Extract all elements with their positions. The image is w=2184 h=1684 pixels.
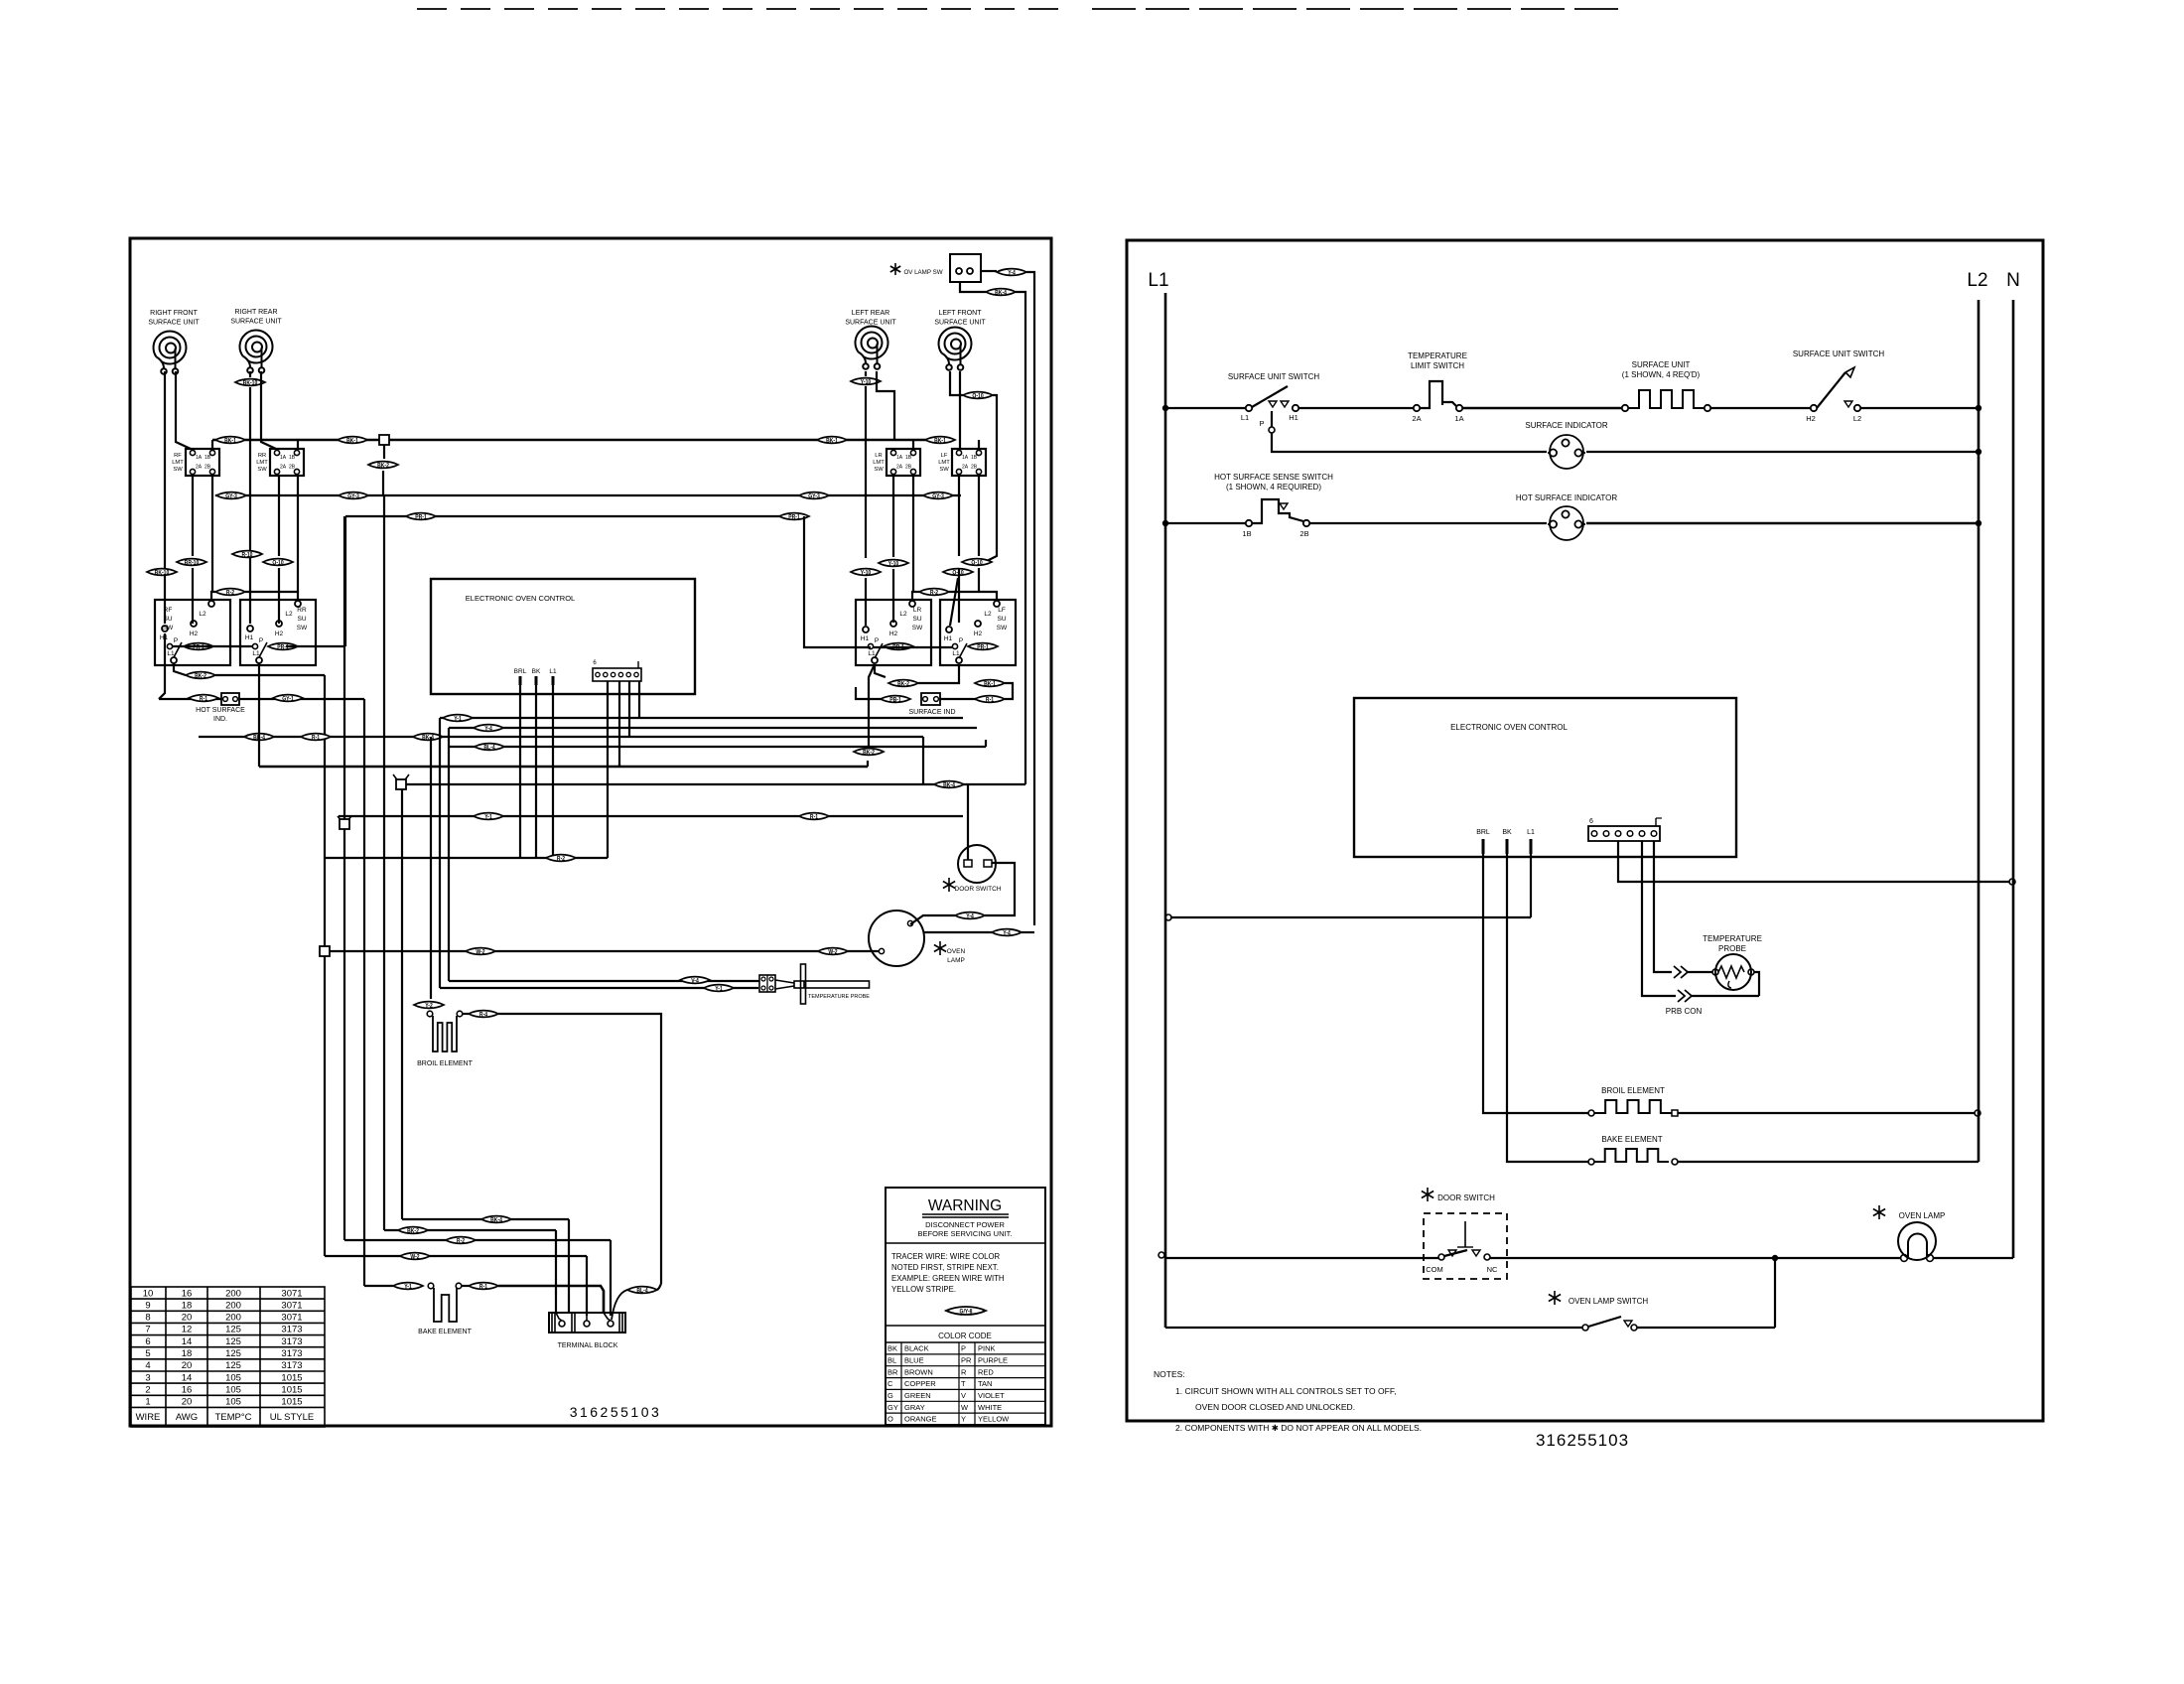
wire RR L1 drop to y772 (258, 663, 260, 767)
svg-text:BK-1: BK-1 (224, 438, 236, 445)
probe taper bottom (775, 986, 794, 989)
EOC strip pin right (1615, 831, 1621, 837)
LR SU SW L2 terminal (909, 601, 915, 607)
wire L1 rail (1164, 293, 1167, 1328)
wire hot surface ind left (159, 698, 221, 700)
svg-text:GY-1: GY-1 (282, 696, 294, 703)
connector G/Y-8 (946, 1307, 986, 1316)
svg-text:W-2: W-2 (828, 949, 837, 956)
limit switch LR LMT SW box (887, 449, 920, 476)
connector R-4 (469, 1011, 498, 1019)
svg-text:LMT: LMT (256, 460, 268, 466)
LR SU SW P terminal (868, 643, 873, 648)
svg-text:125: 125 (225, 1360, 241, 1371)
surface unit switch LR SU SW box (856, 600, 931, 665)
connector Y-2 (414, 1002, 444, 1010)
svg-text:H2: H2 (1806, 414, 1816, 423)
connector BK-1 (817, 437, 847, 445)
wire y1265 (325, 1255, 587, 1257)
oven lamp terminal upper (907, 920, 912, 925)
svg-text:L2: L2 (984, 611, 992, 618)
chevron (1678, 990, 1692, 1002)
svg-text:W-2: W-2 (476, 949, 484, 956)
svg-text:10: 10 (143, 1288, 154, 1299)
LF LMT SW terminal (976, 469, 981, 474)
svg-text:2A: 2A (1412, 414, 1421, 423)
svg-text:TEMPERATURE PROBE: TEMPERATURE PROBE (808, 994, 870, 1000)
surface unit switch LF SU SW box (940, 600, 1016, 665)
svg-text:H1: H1 (1289, 413, 1298, 422)
label tracer wire text (891, 1252, 1005, 1294)
svg-text:Y-1: Y-1 (404, 1284, 412, 1291)
label RIGHT FRONT SURFACE UNIT (148, 310, 200, 327)
svg-text:LMT: LMT (172, 460, 184, 466)
wire strip to probe lower (1642, 841, 1676, 996)
EOC strip pin right (1627, 831, 1633, 837)
svg-text:H1: H1 (861, 635, 870, 642)
wire main bus BK y443 (212, 439, 940, 442)
svg-text:R: R (961, 1367, 967, 1376)
svg-text:BK-1: BK-1 (984, 681, 996, 688)
svg-text:C: C (887, 1379, 893, 1388)
svg-text:3173: 3173 (281, 1336, 302, 1347)
RF LMT SW terminal (209, 450, 214, 455)
wire R-2 to RR L2 (245, 592, 298, 600)
bake element terminal left (428, 1283, 434, 1289)
wire x347 down (343, 516, 345, 820)
bake element terminal right (456, 1283, 462, 1289)
contact triangle (1269, 401, 1277, 407)
limit switch LF LMT SW box (952, 449, 986, 476)
connector Y-10 (879, 560, 908, 568)
svg-text:SURFACE UNIT: SURFACE UNIT (230, 319, 282, 326)
RF SU SW H1 terminal (162, 626, 168, 631)
LR SU SW H2 terminal (890, 621, 896, 627)
probe connector block (759, 975, 775, 992)
svg-text:BK: BK (532, 668, 541, 675)
svg-text:Y-10: Y-10 (888, 561, 898, 568)
asterisk door switch right (1422, 1188, 1433, 1201)
svg-text:6: 6 (145, 1336, 150, 1347)
wire LR H1 lead (865, 386, 867, 558)
label RF LMT SW 1B 2B (205, 455, 211, 471)
wire broil right to x666 (498, 1014, 661, 1284)
hot surface indicator lamp (1548, 506, 1585, 540)
V notch wire (338, 816, 342, 822)
connector BK-4 (244, 734, 274, 742)
hot surface indicator (221, 693, 239, 705)
svg-text:SU: SU (297, 616, 306, 623)
svg-text:YELLOW: YELLOW (978, 1415, 1010, 1424)
svg-text:LMT: LMT (873, 460, 885, 466)
connector Y-1 (443, 715, 473, 723)
RF SU SW L2 terminal (208, 601, 214, 607)
wire BK-2 to LF L1 (918, 665, 959, 683)
RR LMT SW terminal (274, 450, 279, 455)
surface unit switch2 L2 terminal (1854, 405, 1860, 411)
wire y864 (325, 857, 608, 859)
svg-text:TEMPERATURE: TEMPERATURE (1703, 934, 1762, 943)
wire LR L2 up (912, 592, 919, 600)
svg-text:BL-4: BL-4 (483, 745, 495, 752)
wire row1 d (1710, 407, 1811, 409)
wire LR LMT down (892, 476, 894, 557)
connector Y-4 (992, 929, 1022, 937)
limit switch RF LMT SW box (186, 449, 219, 476)
junction lamp row (1772, 1255, 1778, 1261)
wire L1 pin to rail (1170, 916, 1531, 918)
wire LR lead upper (865, 371, 867, 376)
junction L2 row2 (1976, 520, 1981, 526)
wire RR H1 lead (249, 387, 251, 624)
svg-text:HOT SURFACE SENSE SWITCH: HOT SURFACE SENSE SWITCH (1214, 473, 1333, 482)
svg-text:DOOR SWITCH: DOOR SWITCH (955, 886, 1002, 893)
door switch blade (1444, 1250, 1467, 1256)
connector R-1 (469, 1283, 498, 1291)
connector R-1 (189, 695, 218, 703)
warning underline2 (922, 1216, 1009, 1218)
svg-text:105: 105 (225, 1372, 241, 1383)
wire row1 c thick (1462, 407, 1622, 410)
wire GY bus y499 (215, 494, 961, 496)
junction L1 row2 (1162, 520, 1168, 526)
svg-text:VIOLET: VIOLET (978, 1391, 1005, 1400)
surface unit element terminal left (1622, 405, 1628, 411)
label LF LMT SW 1A 2A (962, 455, 969, 471)
wire surface ind right (940, 698, 976, 700)
svg-text:TRACER WIRE: WIRE COLOR: TRACER WIRE: WIRE COLOR (891, 1252, 1001, 1261)
wire y1239 (384, 1229, 556, 1231)
svg-text:Y: Y (961, 1415, 966, 1424)
svg-text:SW: SW (297, 625, 308, 631)
svg-text:R-1: R-1 (986, 697, 994, 704)
svg-text:125: 125 (225, 1325, 241, 1335)
svg-text:BK-10: BK-10 (243, 380, 258, 387)
svg-text:TAN: TAN (978, 1379, 992, 1388)
asterisk OV LAMP SW (890, 263, 900, 275)
wire gauge table grid (131, 1287, 325, 1427)
connector R-2 (215, 589, 245, 597)
surface unit LEFT FRONT coil (939, 328, 972, 370)
wire x443 down (439, 718, 441, 988)
EOC pin stub (519, 676, 522, 685)
svg-text:V-4: V-4 (691, 978, 699, 985)
connector Y-1 (474, 813, 503, 821)
svg-text:Y-10: Y-10 (861, 570, 871, 577)
EOC strip pin right (1591, 831, 1597, 837)
contact triangle small (1280, 503, 1288, 509)
wire RF LMT 2A down (192, 476, 194, 556)
wire BK-1 bend (1005, 683, 1013, 699)
svg-text:WHITE: WHITE (978, 1403, 1002, 1412)
svg-text:2B: 2B (1299, 529, 1308, 538)
wire Y-4 down right side (1026, 272, 1034, 925)
wire x452 down (448, 728, 450, 981)
wire to RR H2 (278, 568, 280, 624)
svg-text:1. CIRCUIT SHOWN WITH ALL CO: 1. CIRCUIT SHOWN WITH ALL CONTROLS SET T… (1175, 1386, 1396, 1396)
wire hot surface ind right (239, 698, 364, 700)
svg-text:ELECTRONIC OVEN CONTROL: ELECTRONIC OVEN CONTROL (1450, 723, 1568, 732)
svg-text:125: 125 (225, 1348, 241, 1359)
svg-text:LF: LF (941, 453, 948, 459)
svg-text:14: 14 (182, 1336, 193, 1347)
surface unit switch2 H2 terminal (1811, 405, 1817, 411)
connector BL-4 (627, 1287, 657, 1295)
label OVEN LAMP left (947, 948, 966, 964)
wire indicator to L2 (1586, 451, 1979, 453)
svg-text:3173: 3173 (281, 1360, 302, 1371)
svg-text:R-1: R-1 (479, 1284, 487, 1291)
svg-text:L1: L1 (1148, 270, 1168, 291)
svg-text:L1: L1 (1241, 413, 1249, 422)
junction square y830 (340, 819, 349, 829)
label RF SU SW (163, 607, 174, 631)
RR LMT SW terminal (294, 450, 299, 455)
svg-text:(1 SHOWN, 4 REQUIRED): (1 SHOWN, 4 REQUIRED) (1226, 483, 1321, 491)
wire to LR H2 (892, 569, 894, 623)
svg-text:SW: SW (257, 467, 267, 473)
connector BK-10 (147, 569, 177, 577)
svg-text:L1: L1 (549, 668, 557, 675)
temperature probe shaft (806, 981, 870, 988)
wire y772 (259, 766, 868, 769)
svg-text:1B: 1B (971, 455, 978, 461)
surface indicator (left panel) (921, 693, 940, 705)
svg-text:1015: 1015 (281, 1384, 302, 1395)
svg-text:PR-1: PR-1 (788, 514, 800, 521)
connector Y-10 (851, 569, 881, 577)
svg-text:PRB CON: PRB CON (1666, 1007, 1703, 1016)
connector PR-1 (406, 513, 436, 521)
wire to LF H2 (958, 568, 960, 623)
svg-text:R-2: R-2 (226, 590, 234, 597)
surface unit switch RR SU SW box (240, 600, 316, 665)
wire RF LMT 1B down (211, 476, 213, 592)
surface ind terminal (923, 697, 928, 702)
door switch NC terminal (1484, 1254, 1490, 1260)
svg-text:1A: 1A (280, 455, 287, 461)
svg-text:(1 SHOWN, 4 REQ'D): (1 SHOWN, 4 REQ'D) (1622, 370, 1701, 379)
asterisk oven lamp switch (1549, 1291, 1561, 1305)
terminal block wire entry (556, 1313, 562, 1321)
RF LMT SW terminal (209, 469, 214, 474)
wire strip c down (628, 681, 630, 737)
EOC pin stub right (1482, 839, 1485, 854)
svg-text:LEFT REAR: LEFT REAR (852, 310, 889, 317)
door switch COM terminal (1438, 1254, 1444, 1260)
svg-text:6: 6 (1589, 818, 1593, 825)
probe conn pin (761, 977, 765, 981)
svg-text:BAKE ELEMENT: BAKE ELEMENT (418, 1329, 472, 1335)
wire L1 pin down (1530, 854, 1532, 917)
svg-text:Y-1: Y-1 (454, 716, 462, 723)
terminal block hatch (621, 1313, 623, 1333)
broil element terminal right (1672, 1110, 1678, 1116)
wire LR H1 lead lower (865, 578, 867, 626)
wire x560 to terminal block (555, 1230, 557, 1313)
LF SU SW L1 terminal (956, 657, 962, 663)
svg-text:18: 18 (182, 1300, 193, 1311)
svg-text:L1: L1 (952, 650, 960, 657)
connector O-10 (963, 392, 993, 400)
wire L2 rail (1978, 300, 1980, 1162)
junction square y790 (396, 779, 406, 789)
svg-text:1B: 1B (205, 455, 211, 461)
connector Y-4 (997, 269, 1026, 277)
connector Y-10 (851, 378, 881, 386)
LF SU SW blade (959, 643, 967, 658)
connector BK-1 (215, 437, 245, 445)
svg-text:18: 18 (182, 1348, 193, 1359)
svg-text:V: V (961, 1391, 966, 1400)
svg-text:200: 200 (225, 1300, 241, 1311)
svg-text:T: T (961, 1379, 966, 1388)
label LR LMT SW 1A 2A (896, 455, 903, 471)
wire BRL down (519, 685, 521, 858)
asterisk oven lamp right (1873, 1205, 1885, 1219)
wire x347 lower (343, 829, 345, 1240)
svg-text:BR-10: BR-10 (185, 560, 200, 567)
bus stub RF 1B (211, 440, 213, 449)
svg-text:LF: LF (998, 607, 1006, 614)
svg-text:BLUE: BLUE (904, 1356, 924, 1365)
label RR SU SW (297, 607, 308, 631)
connector Y-1 (704, 985, 734, 993)
wire R-2 to LF L2 (949, 592, 997, 600)
EOC strip pin right (1603, 831, 1609, 837)
wire LF LMT down (958, 476, 960, 556)
surface unit LEFT REAR coil (855, 327, 887, 369)
terminal block hatch (574, 1313, 576, 1333)
svg-text:PR-1: PR-1 (977, 644, 989, 651)
svg-text:SURFACE UNIT: SURFACE UNIT (1632, 360, 1691, 369)
LR LMT SW terminal (910, 469, 915, 474)
wire probe upper (449, 980, 759, 982)
EOC pin stub right (1506, 839, 1509, 854)
wire y733 (449, 727, 977, 729)
RF SU SW H2 terminal (191, 621, 197, 627)
temp limit switch arm (1442, 402, 1456, 406)
connector PR-1 (884, 643, 913, 651)
EOC pin stub (535, 676, 538, 685)
probe handle (794, 981, 804, 988)
warning divider 1 (886, 1242, 1045, 1244)
connector R-1 (799, 813, 829, 821)
EOC connector strip (left) (593, 668, 641, 681)
svg-text:RF: RF (164, 607, 173, 614)
wire probe lower (440, 987, 758, 989)
connector Y-1 (393, 1283, 423, 1291)
svg-text:1A: 1A (962, 455, 969, 461)
svg-text:2A: 2A (196, 465, 203, 471)
wire door switch drop (967, 784, 969, 860)
wire door switch to Y (985, 863, 1015, 915)
svg-text:NOTED FIRST, STRIPE NEXT.: NOTED FIRST, STRIPE NEXT. (891, 1263, 999, 1272)
svg-text:W-2: W-2 (410, 1254, 419, 1261)
wire y1228 (402, 1218, 569, 1220)
svg-text:SW: SW (874, 467, 884, 473)
svg-text:GREEN: GREEN (904, 1391, 931, 1400)
svg-text:SURFACE INDICATOR: SURFACE INDICATOR (1525, 421, 1607, 430)
svg-text:SW: SW (997, 625, 1008, 631)
svg-text:SU: SU (997, 616, 1006, 623)
svg-text:PINK: PINK (978, 1344, 996, 1353)
svg-text:BK-4: BK-4 (490, 1217, 503, 1224)
svg-text:1A: 1A (196, 455, 203, 461)
wire ov lamp sw BK down (960, 282, 986, 292)
chevron (1674, 966, 1688, 978)
svg-text:TEMPERATURE: TEMPERATURE (1408, 351, 1467, 360)
svg-text:R-2: R-2 (557, 856, 565, 863)
wire strip b down (618, 681, 620, 767)
junction circle broil L2 (1975, 1110, 1980, 1116)
bake element terminal right (1672, 1159, 1678, 1165)
label TEMPERATURE LIMIT SWITCH (1408, 351, 1467, 370)
temp limit switch 2A terminal (1414, 405, 1420, 411)
wire y742 (199, 736, 923, 738)
contact triangle (1472, 1250, 1480, 1256)
oven lamp filament (1908, 1234, 1927, 1258)
switch blade SU switch 2 (1817, 372, 1845, 408)
wire corner to BL-4 (657, 1284, 661, 1290)
svg-text:BAKE ELEMENT: BAKE ELEMENT (1601, 1135, 1662, 1144)
svg-text:1A: 1A (1454, 414, 1463, 423)
surface unit switch L1 terminal (1246, 405, 1252, 411)
warning divider 3 (886, 1341, 1045, 1343)
svg-text:NOTES:: NOTES: (1154, 1369, 1185, 1379)
oven lamp (left) circle (869, 911, 924, 966)
svg-text:BEFORE SERVICING UNIT.: BEFORE SERVICING UNIT. (918, 1229, 1013, 1238)
probe taper top (775, 980, 794, 983)
surface unit switch H1 terminal (1293, 405, 1298, 411)
RF SU SW P terminal (167, 643, 172, 648)
svg-text:R-10: R-10 (242, 552, 253, 559)
wire (463, 1013, 469, 1015)
wire y752 right end (985, 740, 987, 747)
svg-text:R-4: R-4 (479, 1012, 488, 1019)
svg-text:200: 200 (225, 1313, 241, 1324)
svg-text:ELECTRONIC OVEN CONTROL: ELECTRONIC OVEN CONTROL (466, 594, 575, 603)
terminal block terminal (559, 1321, 565, 1327)
svg-text:R-2: R-2 (930, 590, 938, 597)
wire strip to probe upper (1654, 841, 1672, 972)
wire to Y vertical (1022, 931, 1034, 933)
wire bake to L2 corner (1678, 1161, 1979, 1163)
svg-text:BL-4: BL-4 (636, 1288, 648, 1295)
temperature probe zigzag (1718, 966, 1744, 978)
oven lamp terminal lower (879, 948, 884, 953)
terminal block terminal (584, 1321, 590, 1327)
temperature probe hook (1728, 981, 1731, 988)
label LF LMT SW (938, 453, 950, 473)
svg-text:2A: 2A (962, 465, 969, 471)
wire Y-4 to lamp (910, 915, 955, 924)
broil element terminal left (1588, 1110, 1594, 1116)
wire x615 to terminal block (610, 1240, 612, 1316)
wire N rail (2012, 300, 2015, 1258)
surface unit element (1628, 390, 1705, 408)
door switch plunger foot (1457, 1246, 1473, 1248)
connector BK-2 (368, 462, 398, 470)
svg-text:Y-1: Y-1 (484, 814, 492, 821)
temperature probe terminal right (1748, 969, 1754, 975)
LR LMT SW terminal (910, 450, 915, 455)
surface ind terminal (934, 697, 939, 702)
svg-text:1B: 1B (905, 455, 912, 461)
warning underline (922, 1213, 1009, 1215)
surface indicator lamp (1548, 435, 1585, 469)
svg-text:H1: H1 (245, 634, 254, 641)
